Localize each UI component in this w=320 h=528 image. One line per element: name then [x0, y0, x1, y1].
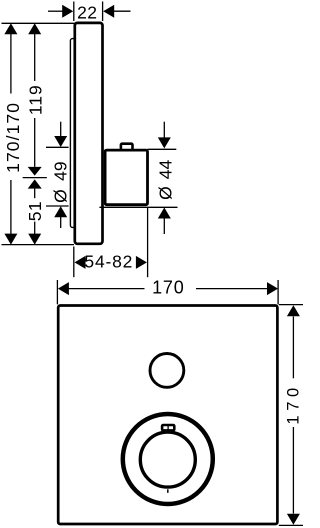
- valve cartridge body: [105, 150, 147, 205]
- dimension diameter 44 bottom tick: [99, 206, 177, 208]
- right 170 dimension line: [292, 317, 294, 379]
- dimension 170/170 line: [10, 34, 12, 94]
- svg-text:170/170: 170/170: [3, 102, 23, 173]
- dimension 51 bottom arrow: [28, 234, 41, 245]
- dimension 170/170 bottom arrow: [4, 234, 17, 245]
- right 170 dimension ticks: [279, 304, 303, 306]
- right 170 bottom arrow: [287, 514, 300, 525]
- svg-text:Ø 49: Ø 49: [51, 161, 71, 202]
- dimension 119 top arrow: [28, 23, 41, 34]
- svg-text:51: 51: [25, 201, 45, 221]
- valve top tab: [121, 144, 133, 150]
- front view button circle: [150, 354, 184, 388]
- plate side view body: [75, 23, 103, 244]
- knob inner circle: [140, 432, 195, 487]
- dimension diameter 49 top tick: [46, 146, 69, 148]
- bottom extension line at plate bottom: [2, 244, 75, 246]
- center tick at valve axis: [23, 177, 47, 179]
- knob bottom tick: [167, 489, 169, 493]
- dimension 51 line: [34, 189, 36, 199]
- dimension 170/170 top arrow: [4, 23, 17, 34]
- plate side view lip: [70, 39, 76, 228]
- dimension 22 extension lines: [73, 2, 75, 22]
- front view square plate: [58, 306, 277, 525]
- svg-text:119: 119: [25, 84, 45, 115]
- dimension diameter 44 bottom arrow: [158, 208, 171, 219]
- svg-text:Ø 44: Ø 44: [156, 159, 176, 199]
- dimension diameter 44 top tick: [148, 148, 177, 150]
- svg-text:54-82: 54-82: [84, 252, 133, 272]
- dimension 22 right arrow: [113, 10, 130, 12]
- svg-text:22: 22: [77, 2, 97, 22]
- dimension 54-82 extension lines: [73, 247, 75, 278]
- dimension 54-82 left arrow: [75, 256, 86, 269]
- knob top tab: [162, 425, 174, 430]
- dimension 22 left arrow: [48, 10, 63, 12]
- dimension diameter 49 bottom arrow: [54, 206, 67, 217]
- dimension diameter 44 top arrow: [163, 122, 165, 138]
- dimension 51 top arrow (bowtie bottom): [28, 179, 42, 188]
- top extension line at plate top: [2, 22, 75, 24]
- svg-text:170: 170: [285, 383, 303, 424]
- right 170 top arrow: [287, 305, 300, 316]
- dimension 119 bottom arrow (bowtie top): [28, 167, 42, 176]
- knob outer circle: [123, 414, 213, 504]
- dimension diameter 49 top arrow: [60, 122, 62, 137]
- svg-text:170: 170: [152, 278, 184, 298]
- front 170 dimension extension lines: [56, 280, 58, 304]
- front 170 left arrow: [58, 282, 69, 295]
- front 170 dimension line: [69, 288, 145, 290]
- dimension 119 line: [34, 34, 36, 81]
- dimension 54-82 right arrow: [136, 256, 147, 269]
- front 170 right arrow: [267, 282, 278, 295]
- dimension diameter 49 bottom tick: [46, 205, 69, 207]
